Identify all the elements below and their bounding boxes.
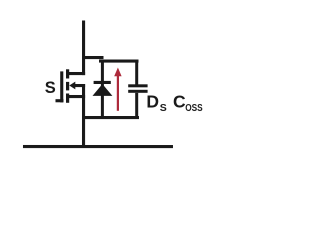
diode D_S triangle (anode)	[92, 84, 112, 96]
svg-text:D: D	[146, 91, 159, 111]
capacitor C_OSS top plate	[128, 84, 147, 87]
diode D_S cathode bar	[94, 81, 111, 84]
wire: drain vertical lead	[82, 20, 85, 75]
wire: diode branch vertical	[101, 59, 104, 118]
red current arrow shaft	[117, 76, 119, 111]
svg-text:S: S	[160, 102, 167, 114]
wire: box top edge	[99, 59, 139, 62]
svg-text:C: C	[173, 91, 186, 111]
transistor Q1 channel segment bottom	[66, 93, 69, 102]
wire: bottom source rail	[23, 145, 173, 148]
transistor Q1 (N-MOSFET) gate lead	[55, 99, 63, 102]
wire: capacitor branch bottom stub	[135, 93, 138, 119]
transistor Q1 body stub	[73, 84, 85, 87]
capacitor C_OSS bottom plate	[128, 90, 147, 93]
svg-text:OSS: OSS	[185, 103, 203, 114]
transistor Q1 body arrowhead	[69, 82, 75, 90]
transistor Q1 channel segment top	[66, 69, 69, 78]
transistor Q1 channel segment middle	[66, 82, 69, 91]
transistor Q1 drain stub	[66, 72, 85, 75]
wire: box bottom edge	[82, 116, 139, 119]
svg-text:S: S	[45, 79, 56, 97]
wire: source vertical lead	[82, 84, 85, 148]
wire: drain branch to snubber box	[82, 56, 104, 59]
red current arrow head	[114, 68, 121, 77]
transistor Q1 gate bar	[60, 71, 63, 102]
transistor Q1 source stub	[66, 95, 85, 98]
wire: capacitor branch top stub	[135, 60, 138, 85]
